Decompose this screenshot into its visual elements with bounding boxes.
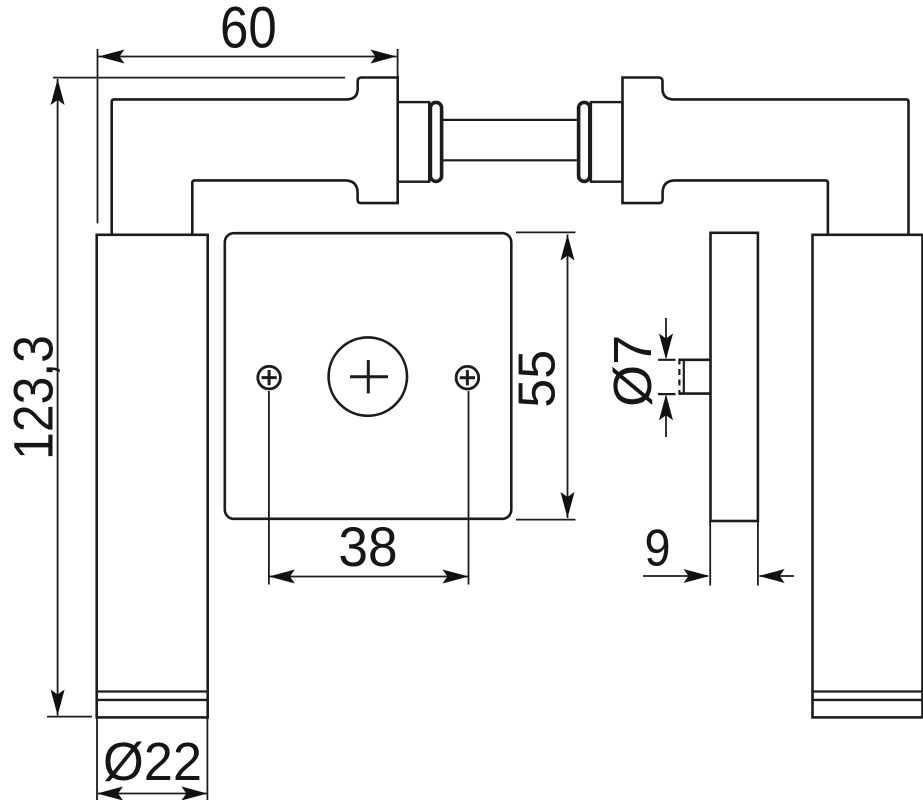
arrowhead dim 123,3 top (51, 79, 65, 105)
right screw (456, 366, 479, 389)
square rose plate front view (225, 233, 512, 519)
dim 60 (97, 49, 99, 223)
svg-text:9: 9 (644, 519, 670, 577)
side view pin (679, 359, 710, 395)
arrowhead dim 9 right (points left) (759, 569, 785, 583)
dim 55 (516, 231, 576, 233)
arrowhead dim 60 right (371, 50, 397, 64)
arrowhead dim 38 right (443, 570, 469, 584)
arrowhead dim O7 lower (points up) (659, 394, 673, 420)
svg-text:38: 38 (338, 516, 397, 579)
left collar plate ring (398, 102, 430, 182)
arrowhead dim 9 left (points right) (684, 569, 710, 583)
left screw (258, 366, 281, 389)
arrowheads (51, 50, 785, 800)
dimension lines (thin) (47, 49, 794, 800)
left lever handle arm and neck (112, 78, 398, 235)
arrowhead dim O7 upper (points down) (659, 334, 673, 360)
arrowhead dim O22 right (181, 787, 207, 800)
center cross (350, 375, 388, 378)
dim 123,3 (53, 77, 345, 79)
arrowhead dim 60 left (99, 50, 125, 64)
spindle hole circle (329, 337, 407, 415)
arrowhead dim O22 left (97, 787, 123, 800)
left spring ring (430, 102, 441, 181)
arrowhead dim 38 left (269, 570, 295, 584)
dim 38 (268, 391, 270, 585)
dim 9 (709, 521, 711, 586)
right collar plate ring (591, 102, 623, 182)
arrowhead dim 123,3 bottom (51, 690, 65, 716)
left lever handle grip (97, 235, 208, 718)
dimension texts (3, 0, 671, 792)
svg-text:Ø22: Ø22 (103, 732, 202, 792)
svg-text:123,3: 123,3 (3, 335, 65, 460)
spindle (443, 119, 578, 121)
right lever handle grip (813, 235, 923, 718)
side view rose plate (711, 233, 758, 521)
svg-text:55: 55 (509, 350, 567, 408)
svg-text:Ø7: Ø7 (603, 335, 663, 407)
arrowhead dim 55 bottom (561, 492, 575, 518)
arrowhead dim 55 top (561, 235, 575, 261)
right lever handle arm and neck (623, 78, 909, 235)
dim 07 (665, 318, 667, 357)
dim 022 (96, 718, 98, 800)
right spring ring (579, 102, 590, 181)
svg-text:60: 60 (220, 0, 277, 60)
